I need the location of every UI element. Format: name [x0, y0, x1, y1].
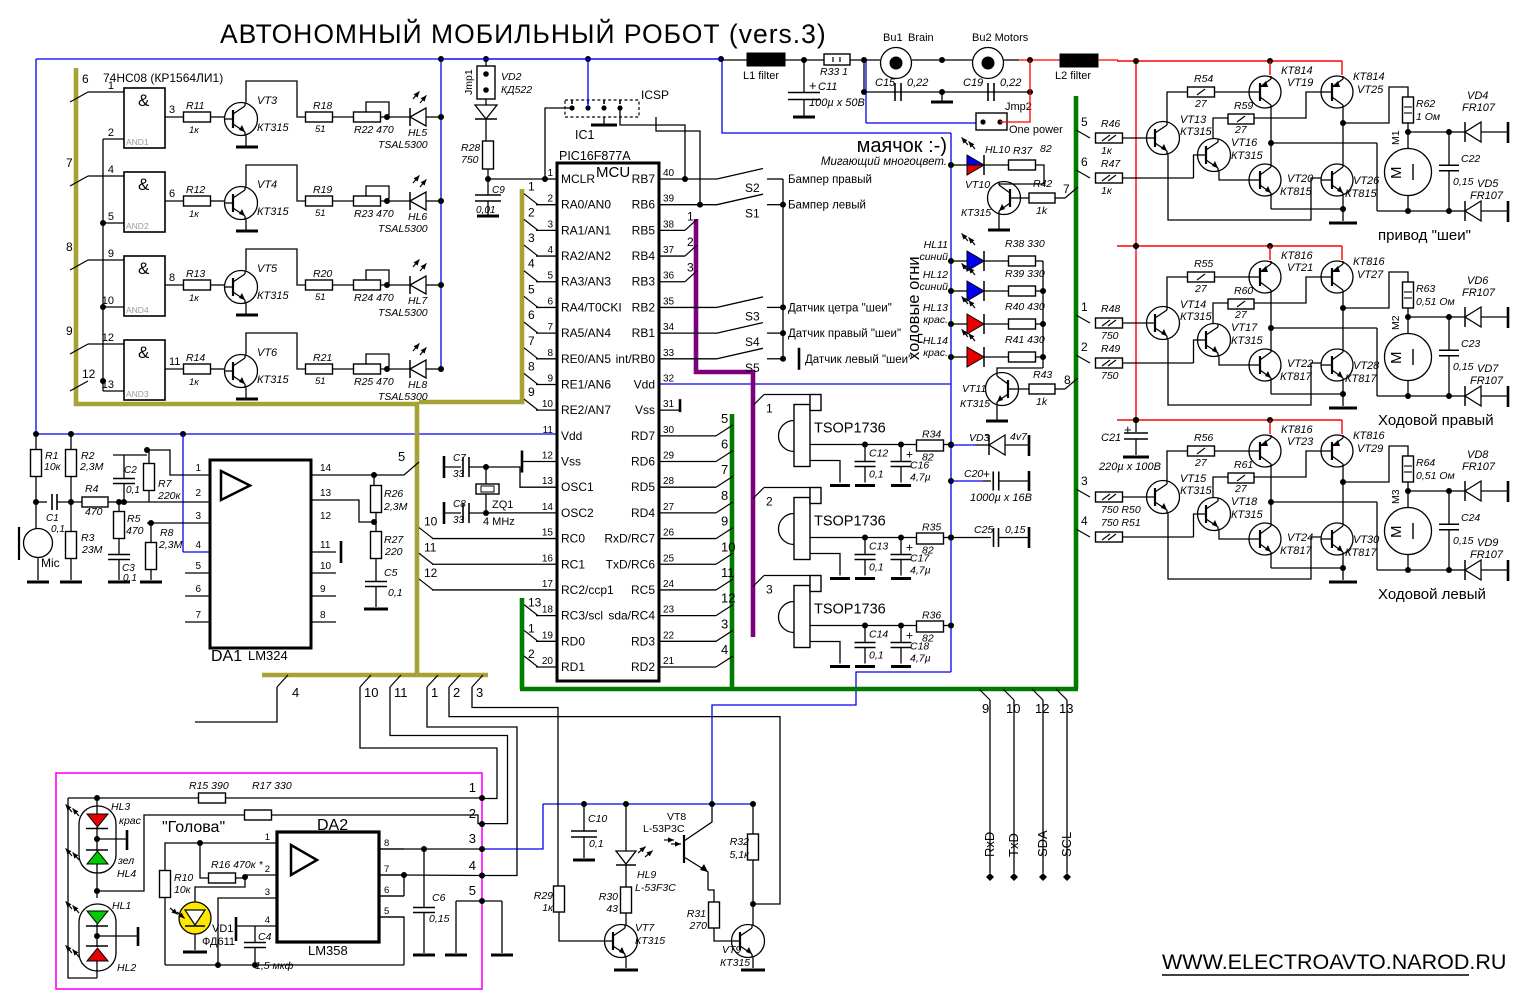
svg-text:RA4/T0CKI: RA4/T0CKI	[561, 300, 622, 314]
svg-text:SDA: SDA	[1035, 830, 1050, 857]
svg-text:1к: 1к	[189, 377, 199, 388]
svg-text:18: 18	[542, 605, 554, 616]
svg-text:R35: R35	[922, 522, 941, 534]
svg-text:RC3/scl: RC3/scl	[561, 609, 603, 623]
svg-text:RD0: RD0	[561, 634, 585, 648]
svg-text:4,7µ: 4,7µ	[910, 653, 931, 665]
svg-text:0,01: 0,01	[476, 205, 495, 216]
svg-text:ZQ1: ZQ1	[492, 499, 513, 511]
svg-text:MCU: MCU	[596, 164, 630, 181]
svg-text:33: 33	[663, 348, 675, 359]
svg-text:RE2/AN7: RE2/AN7	[561, 403, 611, 417]
svg-text:AND1: AND1	[126, 137, 149, 147]
svg-text:0,1: 0,1	[51, 524, 65, 535]
svg-text:6: 6	[195, 584, 201, 595]
svg-text:S2: S2	[745, 181, 760, 195]
svg-text:100µ x 50В: 100µ x 50В	[809, 97, 865, 109]
svg-text:TxD/RC6: TxD/RC6	[606, 557, 656, 571]
svg-text:1,5 мкф: 1,5 мкф	[255, 960, 294, 972]
svg-text:FR107: FR107	[1462, 461, 1496, 473]
svg-text:R5: R5	[127, 513, 141, 525]
svg-text:6: 6	[547, 296, 553, 307]
svg-text:VT16: VT16	[1231, 137, 1258, 149]
svg-text:0,15: 0,15	[1005, 524, 1026, 536]
svg-text:C17: C17	[910, 553, 930, 565]
svg-text:Brain: Brain	[908, 32, 934, 44]
svg-text:51: 51	[315, 124, 326, 135]
svg-text:8: 8	[384, 838, 389, 849]
svg-text:1: 1	[687, 209, 694, 223]
svg-text:HL13: HL13	[923, 302, 948, 314]
svg-text:L1 filter: L1 filter	[743, 70, 779, 82]
svg-text:RA0/AN0: RA0/AN0	[561, 198, 611, 212]
svg-text:VD8: VD8	[1467, 449, 1489, 461]
svg-text:RxD/RC7: RxD/RC7	[604, 532, 655, 546]
svg-text:R40 430: R40 430	[1005, 301, 1045, 313]
svg-text:270: 270	[688, 920, 707, 932]
svg-text:КТ315: КТ315	[257, 374, 289, 386]
svg-text:Vdd: Vdd	[561, 429, 582, 443]
svg-text:C7: C7	[453, 453, 466, 464]
svg-text:HL6: HL6	[408, 211, 427, 223]
svg-text:3: 3	[1081, 474, 1088, 488]
svg-text:R7: R7	[158, 478, 173, 490]
svg-text:0,51 Ом: 0,51 Ом	[1416, 470, 1455, 482]
svg-text:3: 3	[528, 231, 535, 245]
svg-text:14: 14	[320, 463, 332, 474]
svg-text:C25: C25	[974, 524, 993, 536]
svg-text:PIC16F877A: PIC16F877A	[559, 149, 631, 163]
svg-text:VT28: VT28	[1353, 360, 1380, 372]
svg-text:RB4: RB4	[632, 249, 656, 263]
svg-text:R47: R47	[1101, 158, 1121, 170]
svg-text:8: 8	[721, 488, 728, 503]
svg-text:13: 13	[542, 476, 554, 487]
svg-text:HL5: HL5	[408, 127, 427, 139]
svg-text:5: 5	[195, 561, 201, 572]
svg-text:4: 4	[1081, 514, 1088, 528]
svg-text:33: 33	[453, 469, 465, 480]
svg-text:7: 7	[66, 156, 73, 170]
svg-text:C16: C16	[910, 460, 929, 472]
svg-text:R11: R11	[186, 100, 204, 112]
svg-text:74НС08 (КР1564ЛИ1): 74НС08 (КР1564ЛИ1)	[103, 71, 223, 85]
svg-text:VT25: VT25	[1357, 84, 1384, 96]
svg-text:9: 9	[982, 701, 989, 716]
svg-text:AND2: AND2	[126, 221, 149, 231]
svg-text:10к: 10к	[174, 884, 192, 896]
svg-text:7: 7	[384, 864, 389, 875]
svg-text:1к: 1к	[189, 293, 199, 304]
svg-text:Bu1: Bu1	[883, 32, 903, 44]
svg-text:&: &	[138, 343, 150, 362]
svg-text:КТ817: КТ817	[1280, 545, 1312, 557]
svg-text:220: 220	[384, 546, 403, 558]
svg-text:4v7: 4v7	[1010, 431, 1028, 443]
svg-text:RB3: RB3	[632, 275, 656, 289]
svg-text:+: +	[1124, 422, 1132, 437]
svg-text:4: 4	[108, 164, 114, 176]
svg-text:R55: R55	[1194, 258, 1213, 270]
svg-text:7: 7	[721, 462, 728, 477]
svg-text:RD6: RD6	[631, 455, 655, 469]
svg-text:крас.: крас.	[923, 347, 948, 359]
svg-text:VT7: VT7	[635, 922, 655, 934]
svg-text:VT30: VT30	[1353, 534, 1380, 546]
svg-text:51: 51	[315, 292, 326, 303]
svg-text:R41 430: R41 430	[1005, 334, 1045, 346]
svg-text:1: 1	[265, 832, 270, 843]
svg-text:3: 3	[721, 616, 728, 631]
svg-text:5: 5	[398, 449, 405, 464]
svg-text:RB2: RB2	[632, 300, 656, 314]
svg-text:КТ315: КТ315	[961, 207, 991, 219]
svg-text:привод "шеи": привод "шеи"	[1378, 227, 1471, 244]
svg-text:L-53F3C: L-53F3C	[635, 882, 676, 894]
svg-text:КТ817: КТ817	[1345, 373, 1377, 385]
svg-text:TSAL5300: TSAL5300	[378, 223, 428, 235]
svg-text:7: 7	[528, 334, 535, 348]
svg-text:29: 29	[663, 451, 675, 462]
svg-text:C6: C6	[432, 892, 446, 904]
svg-text:R15 390: R15 390	[189, 780, 229, 792]
svg-text:R23 470: R23 470	[354, 208, 394, 220]
svg-text:R64: R64	[1416, 457, 1435, 469]
svg-text:RB7: RB7	[632, 172, 656, 186]
svg-text:C15: C15	[875, 77, 896, 89]
svg-text:R12: R12	[186, 184, 205, 196]
svg-text:Jmp2: Jmp2	[1005, 101, 1032, 113]
svg-text:R48: R48	[1101, 303, 1120, 315]
svg-text:VT26: VT26	[1353, 175, 1380, 187]
svg-text:1: 1	[108, 80, 114, 92]
svg-text:R26: R26	[384, 488, 403, 500]
svg-text:8: 8	[320, 610, 326, 621]
svg-text:C14: C14	[869, 629, 888, 641]
svg-text:RA2/AN2: RA2/AN2	[561, 249, 611, 263]
svg-text:VT4: VT4	[257, 179, 277, 191]
svg-text:10: 10	[542, 399, 554, 410]
svg-text:AND4: AND4	[126, 305, 149, 315]
svg-text:КТ315: КТ315	[635, 935, 665, 947]
svg-text:S4: S4	[745, 335, 760, 349]
svg-text:23М: 23М	[81, 544, 103, 556]
svg-text:10: 10	[320, 561, 332, 572]
svg-text:КТ817: КТ817	[1345, 547, 1377, 559]
svg-text:4: 4	[265, 915, 270, 926]
svg-text:VD5: VD5	[1477, 178, 1499, 190]
svg-text:0,15: 0,15	[1453, 535, 1474, 547]
svg-text:R4: R4	[85, 483, 99, 495]
svg-text:R25 470: R25 470	[354, 376, 394, 388]
svg-text:VT18: VT18	[1231, 496, 1258, 508]
svg-text:+: +	[983, 467, 990, 481]
svg-text:10: 10	[364, 685, 378, 700]
svg-text:R37: R37	[1013, 145, 1033, 157]
svg-text:FR107: FR107	[1470, 549, 1504, 561]
svg-text:TxD: TxD	[1006, 833, 1021, 857]
svg-text:26: 26	[663, 528, 675, 539]
svg-text:0,1: 0,1	[869, 562, 884, 574]
svg-text:Ходовой левый: Ходовой левый	[1378, 586, 1486, 603]
svg-text:ходовые огни: ходовые огни	[905, 256, 923, 360]
svg-text:R30: R30	[599, 891, 618, 903]
svg-text:4: 4	[195, 540, 201, 551]
svg-text:R28: R28	[461, 142, 480, 154]
svg-text:C18: C18	[910, 641, 929, 653]
svg-text:FR107: FR107	[1470, 375, 1504, 387]
svg-text:2: 2	[547, 194, 553, 205]
svg-text:1: 1	[528, 621, 535, 635]
svg-text:VT19: VT19	[1287, 77, 1313, 89]
svg-text:RD7: RD7	[631, 429, 655, 443]
svg-text:2: 2	[687, 235, 694, 249]
svg-text:R27: R27	[384, 534, 404, 546]
svg-text:синий: синий	[919, 281, 948, 293]
svg-text:VT5: VT5	[257, 263, 278, 275]
svg-text:R33 1: R33 1	[820, 66, 848, 78]
svg-text:HL7: HL7	[408, 295, 428, 307]
svg-text:RD5: RD5	[631, 480, 655, 494]
svg-text:RC0: RC0	[561, 532, 585, 546]
svg-text:0,51 Ом: 0,51 Ом	[1416, 296, 1455, 308]
svg-text:R42: R42	[1033, 178, 1052, 190]
svg-text:0,1: 0,1	[123, 573, 137, 584]
svg-text:синий: синий	[919, 251, 948, 263]
svg-text:3: 3	[687, 261, 694, 275]
svg-text:C23: C23	[1461, 338, 1480, 350]
svg-text:4,7µ: 4,7µ	[910, 472, 931, 484]
svg-text:КТ814: КТ814	[1353, 71, 1385, 83]
svg-text:M2: M2	[1390, 315, 1402, 330]
svg-text:КТ315: КТ315	[720, 957, 750, 969]
svg-text:VD1: VD1	[212, 923, 233, 935]
svg-text:51: 51	[315, 208, 326, 219]
svg-text:20: 20	[542, 656, 554, 667]
svg-text:17: 17	[542, 579, 554, 590]
svg-text:0,1: 0,1	[388, 587, 403, 599]
svg-text:R16 470к *: R16 470к *	[211, 859, 264, 871]
svg-text:3: 3	[195, 511, 201, 522]
svg-text:22: 22	[663, 630, 675, 641]
svg-text:AND3: AND3	[126, 389, 149, 399]
svg-text:3: 3	[265, 887, 270, 898]
svg-text:R43: R43	[1033, 369, 1052, 381]
svg-text:32: 32	[663, 373, 675, 384]
svg-text:TSOP1736: TSOP1736	[814, 514, 886, 530]
svg-text:470: 470	[126, 525, 144, 537]
svg-text:RxD: RxD	[982, 832, 997, 857]
svg-text:C11: C11	[818, 81, 837, 93]
svg-text:Датчик цетра "шеи": Датчик цетра "шеи"	[788, 302, 892, 314]
svg-text:4: 4	[292, 685, 299, 700]
svg-text:750: 750	[1101, 370, 1119, 382]
svg-text:9: 9	[528, 385, 535, 399]
svg-text:40: 40	[663, 168, 675, 179]
svg-text:3: 3	[469, 831, 476, 846]
svg-text:750: 750	[1101, 330, 1119, 342]
svg-text:0,15: 0,15	[1453, 361, 1474, 373]
svg-text:1: 1	[431, 685, 438, 700]
svg-text:HL3: HL3	[111, 801, 130, 813]
svg-text:0,15: 0,15	[429, 913, 450, 925]
svg-text:КТ816: КТ816	[1353, 256, 1385, 268]
svg-text:43: 43	[606, 903, 618, 915]
svg-text:Бампер правый: Бампер правый	[788, 174, 872, 186]
svg-text:HL8: HL8	[408, 379, 427, 391]
svg-text:1: 1	[528, 180, 535, 194]
svg-text:21: 21	[663, 656, 675, 667]
svg-text:маячок :-): маячок :-)	[857, 135, 947, 157]
svg-text:C13: C13	[869, 541, 888, 553]
svg-text:R36: R36	[922, 610, 941, 622]
svg-text:VT29: VT29	[1357, 443, 1383, 455]
svg-text:1000µ x 16В: 1000µ x 16В	[970, 492, 1032, 504]
svg-text:VD2: VD2	[501, 71, 522, 83]
svg-text:R19: R19	[313, 184, 332, 196]
svg-text:TSOP1736: TSOP1736	[814, 602, 886, 618]
svg-text:RD3: RD3	[631, 634, 655, 648]
svg-text:13: 13	[320, 488, 332, 499]
svg-text:35: 35	[663, 296, 675, 307]
svg-text:RD2: RD2	[631, 660, 655, 674]
svg-text:6: 6	[384, 885, 389, 896]
svg-text:R54: R54	[1194, 73, 1213, 85]
svg-text:R61: R61	[1234, 459, 1253, 471]
svg-text:R32: R32	[730, 836, 749, 848]
svg-text:DA1: DA1	[211, 648, 242, 665]
svg-text:2: 2	[528, 647, 535, 661]
svg-text:27: 27	[1234, 309, 1248, 321]
svg-text:27: 27	[1194, 283, 1208, 295]
svg-text:6: 6	[721, 437, 728, 452]
svg-text:C1: C1	[46, 513, 59, 524]
svg-text:VT17: VT17	[1231, 322, 1258, 334]
svg-text:5: 5	[721, 411, 728, 426]
svg-text:RE1/AN6: RE1/AN6	[561, 377, 611, 391]
svg-text:R49: R49	[1101, 343, 1120, 355]
svg-text:RC1: RC1	[561, 557, 585, 571]
svg-text:11: 11	[320, 540, 331, 551]
svg-text:КТ315: КТ315	[257, 290, 289, 302]
svg-text:5,1к: 5,1к	[729, 849, 750, 861]
svg-text:34: 34	[663, 322, 675, 333]
svg-text:3: 3	[547, 219, 553, 230]
svg-text:Vss: Vss	[561, 455, 581, 469]
svg-text:6: 6	[528, 308, 535, 322]
svg-text:L-53P3C: L-53P3C	[643, 823, 685, 835]
svg-text:FR107: FR107	[1470, 190, 1504, 202]
svg-text:КТ815: КТ815	[1345, 188, 1377, 200]
svg-text:КТ816: КТ816	[1281, 250, 1313, 262]
svg-text:КТ315: КТ315	[1180, 126, 1212, 138]
svg-text:R34: R34	[922, 429, 941, 441]
svg-text:15: 15	[542, 528, 554, 539]
svg-text:RE0/AN5: RE0/AN5	[561, 352, 611, 366]
svg-text:2,3М: 2,3М	[158, 539, 183, 551]
svg-text:9: 9	[108, 248, 114, 260]
svg-text:750 R50: 750 R50	[1101, 504, 1141, 516]
svg-text:14: 14	[542, 502, 554, 513]
svg-text:2: 2	[195, 488, 201, 499]
svg-text:&: &	[138, 259, 150, 278]
svg-text:12: 12	[1035, 701, 1049, 716]
svg-text:RD1: RD1	[561, 660, 585, 674]
svg-text:5: 5	[528, 282, 535, 296]
svg-text:38: 38	[663, 219, 675, 230]
svg-text:LM324: LM324	[248, 648, 288, 663]
svg-text:RB6: RB6	[632, 198, 656, 212]
svg-text:КД522: КД522	[501, 84, 532, 96]
svg-text:M3: M3	[1390, 489, 1402, 504]
svg-text:RC5: RC5	[631, 583, 655, 597]
svg-text:VT10: VT10	[965, 179, 990, 191]
svg-text:HL12: HL12	[923, 269, 948, 281]
svg-text:23: 23	[663, 605, 675, 616]
svg-text:VT23: VT23	[1287, 436, 1314, 448]
svg-text:C10: C10	[588, 813, 607, 825]
svg-text:1: 1	[547, 168, 553, 179]
svg-text:&: &	[138, 91, 150, 110]
svg-text:Vdd: Vdd	[634, 377, 655, 391]
svg-text:2: 2	[453, 685, 460, 700]
svg-text:C9: C9	[492, 185, 505, 196]
svg-text:+: +	[809, 78, 817, 93]
svg-text:VT21: VT21	[1287, 262, 1313, 274]
svg-text:R56: R56	[1194, 432, 1213, 444]
svg-text:R60: R60	[1234, 285, 1253, 297]
svg-text:VD3: VD3	[969, 432, 990, 444]
svg-text:S3: S3	[745, 309, 760, 323]
svg-text:750 R51: 750 R51	[1101, 517, 1141, 529]
svg-text:VD9: VD9	[1477, 537, 1498, 549]
svg-text:12: 12	[82, 367, 96, 381]
svg-text:1k: 1k	[1036, 396, 1048, 408]
svg-text:C8: C8	[453, 499, 466, 510]
svg-text:One power: One power	[1009, 124, 1063, 136]
svg-text:0,1: 0,1	[126, 485, 140, 496]
svg-text:8: 8	[1064, 373, 1071, 387]
svg-text:R31: R31	[687, 908, 706, 920]
svg-text:19: 19	[542, 630, 554, 641]
svg-text:VT6: VT6	[257, 347, 278, 359]
svg-text:VT14: VT14	[1180, 299, 1206, 311]
svg-text:R14: R14	[186, 352, 205, 364]
svg-text:11: 11	[169, 356, 180, 368]
svg-text:КТ816: КТ816	[1353, 430, 1385, 442]
svg-text:КТ315: КТ315	[1231, 509, 1263, 521]
svg-text:27: 27	[1194, 457, 1208, 469]
svg-text:2: 2	[528, 205, 535, 219]
svg-text:33: 33	[453, 515, 465, 526]
svg-text:HL9: HL9	[637, 869, 656, 881]
svg-text:Бампер левый: Бампер левый	[788, 200, 866, 212]
svg-text:8: 8	[528, 359, 535, 373]
svg-text:4: 4	[528, 257, 535, 271]
svg-text:R13: R13	[186, 268, 205, 280]
svg-text:28: 28	[663, 476, 675, 487]
svg-text:9: 9	[721, 514, 728, 529]
svg-text:27: 27	[663, 502, 675, 513]
svg-text:C12: C12	[869, 448, 888, 460]
svg-text:2: 2	[265, 864, 270, 875]
svg-text:1: 1	[1081, 300, 1088, 314]
svg-text:1: 1	[469, 780, 476, 795]
svg-text:12: 12	[721, 591, 735, 606]
svg-text:27: 27	[1234, 124, 1248, 136]
svg-text:30: 30	[663, 425, 675, 436]
svg-text:КТ817: КТ817	[1280, 371, 1312, 383]
